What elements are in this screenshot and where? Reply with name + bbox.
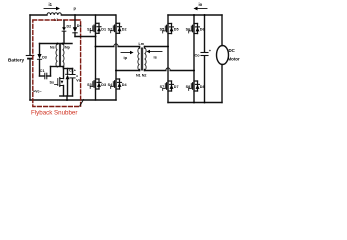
svg-text:Motor: Motor xyxy=(228,57,240,62)
wire secondary bottom (with hop over leg C) xyxy=(145,70,166,72)
svg-text:D5: D5 xyxy=(174,28,179,32)
junction T2 primary top xyxy=(57,43,59,45)
svg-text:Np: Np xyxy=(65,46,71,50)
wire bottom rail left xyxy=(30,99,116,101)
svg-text:S2: S2 xyxy=(108,27,113,31)
svg-text:Ss: Ss xyxy=(50,81,55,85)
svg-text:S7: S7 xyxy=(160,85,165,89)
svg-text:io: io xyxy=(199,2,203,7)
current arrow ip xyxy=(121,51,134,60)
svg-text:D7: D7 xyxy=(174,85,179,89)
svg-text:Co: Co xyxy=(195,54,201,58)
wire clamp to leg A xyxy=(75,36,96,38)
diode D4 (clamp return) xyxy=(66,69,70,97)
capacitor C1 xyxy=(40,69,51,79)
transistor S3 xyxy=(87,79,106,89)
svg-text:D8: D8 xyxy=(200,85,205,89)
wire top rail left cont xyxy=(61,14,115,16)
inductor L1 xyxy=(47,13,61,15)
transistor S4 xyxy=(108,79,128,89)
capacitor Co xyxy=(195,15,212,103)
junction T2 secondary top xyxy=(62,43,64,45)
flyback snubber box (dashed) xyxy=(33,20,81,107)
switches S1-S8 xyxy=(87,23,204,91)
svg-text:+Vc−: +Vc− xyxy=(33,90,42,94)
junction snubber return xyxy=(66,99,68,101)
diode D2 (box top branch) xyxy=(62,21,71,44)
junction leg D top xyxy=(193,14,195,16)
svg-text:D2: D2 xyxy=(67,25,72,29)
wire snubber mid xyxy=(40,43,73,45)
wire snubber bottom xyxy=(60,95,73,97)
wire bottom rail right xyxy=(168,102,222,104)
svg-text:S5: S5 xyxy=(160,28,165,32)
current arrow i1 xyxy=(44,2,60,11)
junction leg B midpoint xyxy=(115,70,117,72)
svg-text:D1: D1 xyxy=(101,27,106,31)
svg-text:Ns: Ns xyxy=(50,46,55,50)
svg-text:Vc: Vc xyxy=(76,79,80,83)
battery B1 xyxy=(26,15,33,100)
current arrow is xyxy=(146,50,162,60)
wire top rail left xyxy=(30,14,47,16)
junction Co bottom xyxy=(204,102,206,104)
transistor S2 xyxy=(108,23,127,33)
wire top rail right xyxy=(168,14,222,16)
junction leg D midpoint xyxy=(193,70,195,72)
capacitor Cs xyxy=(69,69,81,97)
transistor S6 xyxy=(186,24,205,34)
wire snubber upper link xyxy=(64,68,73,70)
wire primary top (with hop over leg B) xyxy=(96,46,114,48)
mosfet Ss (snubber switch) xyxy=(50,78,64,97)
svg-text:S3: S3 xyxy=(87,83,92,87)
svg-text:Flyback Snubber: Flyback Snubber xyxy=(31,109,77,116)
wire leg A xyxy=(95,15,97,100)
wire leg C xyxy=(167,15,169,103)
svg-text:D6: D6 xyxy=(200,28,205,32)
wire snubber corner tick xyxy=(80,100,84,107)
svg-text:D3: D3 xyxy=(42,56,47,60)
transistor S8 xyxy=(186,81,205,91)
junction leg C midpoint xyxy=(167,46,169,48)
wire leg D xyxy=(193,15,195,103)
transformer T1 (main) xyxy=(136,42,146,78)
svg-text:S8: S8 xyxy=(186,85,191,89)
transformer T2 (flyback) xyxy=(50,44,71,68)
svg-text:DC: DC xyxy=(229,48,236,53)
wire leg B xyxy=(115,15,117,100)
svg-text:Ds: Ds xyxy=(77,24,82,28)
transistor S7 xyxy=(160,81,179,91)
svg-text:ip: ip xyxy=(124,55,128,60)
svg-text:D3: D3 xyxy=(101,83,106,87)
diode Ds (rail to clamp) xyxy=(73,15,82,37)
svg-text:S6: S6 xyxy=(186,28,191,32)
transistor S5 xyxy=(160,24,179,34)
svg-text:Battery: Battery xyxy=(8,58,25,63)
svg-text:C1: C1 xyxy=(40,69,45,73)
svg-text:N1 N2: N1 N2 xyxy=(136,74,146,78)
wire switch loop xyxy=(50,67,52,77)
current arrow io xyxy=(194,2,208,11)
svg-text:S1: S1 xyxy=(87,27,92,31)
junction Co top xyxy=(204,14,206,16)
svg-text:Lm: Lm xyxy=(139,42,144,46)
junction leg D bottom xyxy=(193,102,195,104)
svg-text:=: = xyxy=(76,74,78,78)
DC motor M xyxy=(217,15,240,103)
junction leg A midpoint xyxy=(95,46,97,48)
transistor S1 xyxy=(87,23,106,33)
diode D3 (left branch) xyxy=(37,44,46,77)
svg-text:D2: D2 xyxy=(122,27,127,31)
wire primary bottom xyxy=(116,70,140,72)
wire secondary top xyxy=(145,46,169,48)
